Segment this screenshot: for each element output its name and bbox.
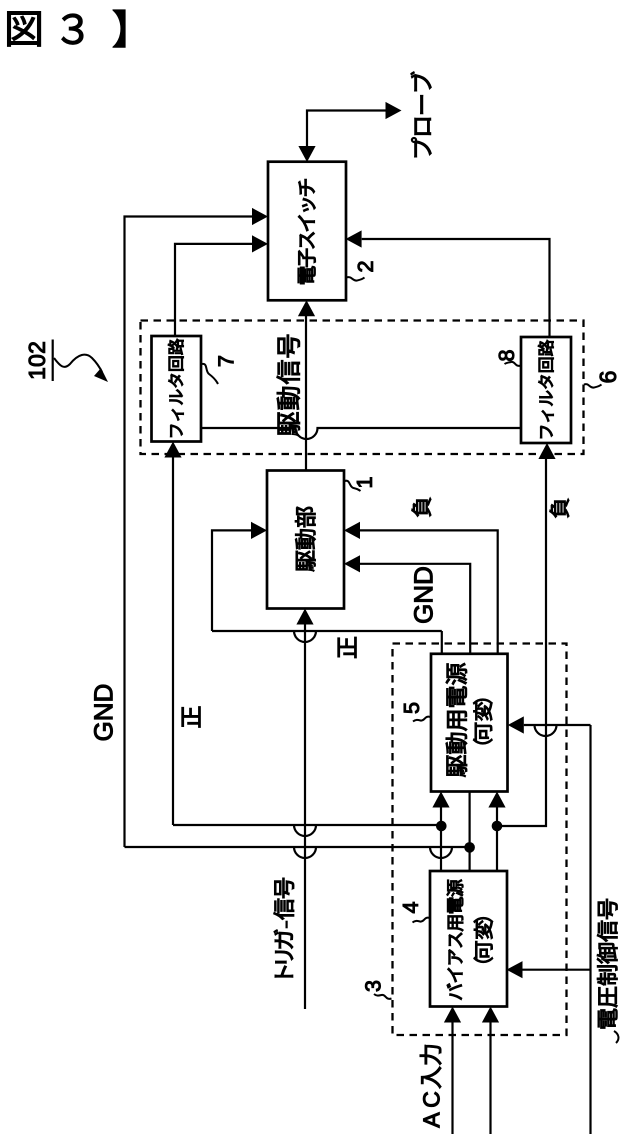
arrowhead into electronic switch 2 top bbox=[298, 146, 315, 162]
arrowhead negative into filter 8 bottom bbox=[538, 443, 555, 459]
text バイアス用電源 (block 4 line 1) bbox=[447, 880, 463, 1000]
label 102 bbox=[29, 342, 45, 378]
wire from electronic switch 2 up and right to probe bbox=[307, 111, 386, 147]
arrowhead drive signal into block 2 bottom bbox=[298, 300, 315, 316]
leader squiggle of ref 3 bbox=[374, 994, 392, 999]
negative tap wire from junction up to filter 8 bbox=[497, 459, 546, 826]
arrowhead AC input 2 into block 4 bottom bbox=[482, 1007, 499, 1023]
arrowhead into block 5 bottom right bbox=[488, 792, 505, 808]
wire block 4 to block 5 centre column bbox=[469, 792, 471, 872]
ref numeral 3 bbox=[365, 981, 380, 991]
arrowhead to probe bbox=[386, 102, 402, 119]
leader squiggle of ref 2 bbox=[346, 277, 365, 281]
leader squiggle of ref 7 bbox=[202, 364, 218, 384]
squiggly leader arrow from 102 bbox=[54, 355, 102, 372]
arrowhead positive supply into block 1 left bbox=[251, 522, 267, 539]
arrowhead voltage control into block 4 right bbox=[507, 961, 523, 978]
junction dot on centre column (GND tap) bbox=[464, 842, 475, 853]
positive wire from block 5 top / up to block 1 left bbox=[441, 631, 443, 654]
block 8 フィルタ回路 (filter circuit) bbox=[521, 337, 571, 443]
GND wire from block 5 top to block 1 right bbox=[360, 564, 470, 654]
wire from filter 7 to filter 8 (hops drive signal line) bbox=[201, 428, 521, 439]
leader squiggle of ref 1 bbox=[345, 481, 361, 491]
label 正 (positive, near block 1) bbox=[338, 637, 356, 658]
label 負 (right, near filter 8 feed) bbox=[550, 499, 569, 518]
negative wire from block 5 top to block 1 right bbox=[360, 530, 498, 653]
block 7 フィルタ回路 (filter circuit) bbox=[152, 336, 202, 442]
text 駆動用電源 (block 5 line 1) bbox=[446, 663, 467, 777]
text （可変） (block 5 line 2) bbox=[473, 699, 492, 744]
arrowhead GND wire into block 2 upper left bbox=[252, 208, 268, 225]
AC input line 2 bbox=[489, 1022, 491, 1134]
arrowhead of 102 leader bbox=[94, 368, 108, 382]
positive tap vertical up to filter 7 bbox=[172, 457, 174, 825]
label 駆動信号 (drive signal) bbox=[277, 335, 300, 436]
block 1 駆動部 (drive unit) bbox=[267, 471, 344, 609]
figure heading 図 bbox=[8, 12, 41, 47]
wire from filter 8 top to block 2 right bbox=[362, 239, 550, 337]
arrowhead GND into block 1 right lower bbox=[344, 555, 360, 572]
dashed block 3 (power supply unit) bbox=[393, 644, 567, 1036]
block 2 電子スイッチ (electronic switch) bbox=[268, 162, 346, 301]
leader squiggle of ref 6 bbox=[584, 384, 602, 388]
underline of 102 bbox=[52, 340, 54, 382]
AC input line 1 bbox=[451, 1022, 453, 1134]
label GND (near block 5) bbox=[414, 567, 432, 622]
label GND (left) bbox=[94, 685, 112, 740]
ref numeral 7 bbox=[219, 356, 234, 366]
label AC入力 (AC input) bbox=[420, 1045, 441, 1128]
arrowhead into block 5 bottom left bbox=[432, 792, 449, 808]
junction dot on left column (positive tap) bbox=[436, 821, 447, 832]
positive tap wire from junction to left (hops trigger line) bbox=[173, 825, 441, 836]
positive wire horizontal run under block 1 (hops trigger line) bbox=[212, 631, 442, 642]
ref numeral 2 bbox=[358, 262, 373, 272]
text （可変） (block 4 line 2) bbox=[474, 917, 493, 962]
text フィルタ回路 (7) bbox=[168, 339, 183, 437]
arrowhead filter 8 output into block 2 right bbox=[346, 230, 362, 247]
ref numeral 1 bbox=[357, 478, 372, 487]
ref numeral 4 bbox=[403, 902, 418, 913]
ref numeral 5 bbox=[404, 703, 419, 713]
arrowhead trigger into block 1 bottom bbox=[296, 609, 313, 625]
ref numeral 6 bbox=[600, 372, 616, 383]
label 負 (negative, near block 1) bbox=[412, 498, 431, 517]
leader squiggle of ref 5 bbox=[413, 717, 431, 722]
arrowhead positive into filter 7 bottom bbox=[164, 442, 181, 458]
block 4 バイアス用電源（可変） (bias power supply, variable) bbox=[430, 871, 507, 1007]
GND wire bottom run from junction to left (hops trigger line and positive line) bbox=[125, 847, 470, 858]
figure heading 】 bbox=[113, 10, 125, 47]
label 正 (left, near filter 7 feed) bbox=[182, 707, 200, 728]
block 5 駆動用電源（可変） (drive power supply, variable) bbox=[431, 654, 508, 792]
arrowhead AC input 1 into block 4 bottom bbox=[444, 1007, 461, 1023]
arrowhead voltage control into block 5 right bbox=[508, 716, 524, 733]
voltage control signal vertical line bbox=[589, 725, 591, 1134]
figure heading ３ bbox=[62, 14, 83, 44]
text 電子スイッチ bbox=[298, 179, 316, 284]
small curl mark at right edge bbox=[614, 1031, 618, 1043]
arrowhead negative into block 1 right upper bbox=[344, 522, 360, 539]
wire block 4 to block 5 right column bbox=[496, 807, 498, 871]
text 駆動部 bbox=[295, 507, 315, 571]
positive wire left vertical into block 1 bbox=[212, 530, 252, 631]
label 電圧制御信号 (voltage control signal) bbox=[597, 899, 617, 1028]
leader squiggle of ref 8 bbox=[505, 362, 522, 366]
wire 駆動信号 drive signal from block 1 to block 2 bbox=[305, 315, 307, 471]
wire from filter 7 top to block 2 lower left bbox=[175, 244, 253, 336]
label トリガ-信号 (trigger signal) bbox=[274, 878, 294, 977]
ref numeral 8 bbox=[499, 350, 514, 360]
voltage control branch to block 5 (hops negative tap) bbox=[524, 725, 591, 736]
wire block 4 to block 5 left column bbox=[440, 807, 442, 871]
voltage control branch to block 4 bbox=[523, 969, 591, 971]
arrowhead filter 7 output into block 2 bbox=[252, 235, 268, 252]
dashed block 6 (filter unit) bbox=[141, 321, 584, 455]
label プローブ (probe) bbox=[411, 72, 432, 157]
GND wire left vertical and top run into block 2 bbox=[125, 217, 253, 848]
junction dot on right column (negative tap) bbox=[492, 821, 503, 832]
trigger signal line トリガ-信号 bbox=[304, 625, 306, 1010]
leader squiggle of ref 4 bbox=[413, 918, 431, 923]
text フィルタ回路 (8) bbox=[538, 340, 553, 438]
